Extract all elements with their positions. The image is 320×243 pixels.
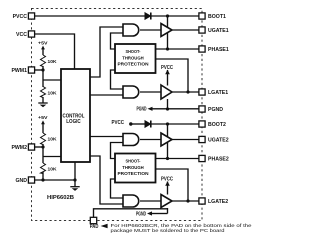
pin LGATE2 <box>199 198 205 204</box>
pin PAD <box>90 217 96 223</box>
svg-text:PWM1: PWM1 <box>11 68 27 74</box>
junction node PGND1 <box>166 107 169 110</box>
svg-text:VCC: VCC <box>16 32 27 38</box>
wire CL out to gate G2B lower input <box>90 156 123 204</box>
ground symbol below R2 <box>38 103 47 107</box>
svg-text:LGATE1: LGATE1 <box>208 90 228 96</box>
wire PVCC2 label to diode D2 <box>131 123 145 125</box>
junction node BOOT1 <box>166 14 169 17</box>
and gate G1B <box>123 86 139 98</box>
junction node PWM2 <box>41 145 44 148</box>
pin GND <box>28 177 34 183</box>
wire BOOT2 riser to buffer B2A top <box>167 124 169 137</box>
wire PHASE1 <box>156 48 199 50</box>
svg-text:UGATE2: UGATE2 <box>208 138 229 144</box>
svg-text:10K: 10K <box>48 137 58 142</box>
svg-text:SHOOT-: SHOOT- <box>126 159 141 164</box>
svg-text:PAD: PAD <box>90 224 99 230</box>
pin PVCC <box>28 13 34 19</box>
svg-text:+5V: +5V <box>38 115 49 120</box>
shoot-through protection box STP1 <box>115 44 156 73</box>
wire STP2 to gate G2A lower input <box>111 143 124 159</box>
svg-text:PHASE1: PHASE1 <box>208 47 229 53</box>
and gate G2B <box>123 195 139 207</box>
svg-text:UGATE1: UGATE1 <box>208 28 229 34</box>
svg-text:10K: 10K <box>48 59 58 64</box>
junction node PHASE1 <box>166 47 169 50</box>
wire PGND2 label <box>152 213 168 215</box>
wire D1 to BOOT1 <box>151 15 199 17</box>
svg-text:PVCC: PVCC <box>112 120 125 126</box>
and gate G1A <box>123 24 139 36</box>
resistor R1 10K <box>41 55 46 67</box>
junction node PWM1 <box>41 68 44 71</box>
pin PWM2 <box>28 144 34 150</box>
svg-text:BOOT1: BOOT1 <box>208 14 226 20</box>
wire PVCC arrow to buffer B2B top <box>167 182 169 195</box>
svg-text:LGATE2: LGATE2 <box>208 199 228 205</box>
control logic box U1 <box>61 69 90 162</box>
wire gate G1A to buffer B1A <box>140 29 161 31</box>
svg-text:SHOOT-: SHOOT- <box>126 49 141 54</box>
wire control logic bottom to ground <box>74 162 76 187</box>
wire VCC to control logic top <box>35 34 75 69</box>
PAD pointer triangle <box>101 224 108 229</box>
wire R2 to ground <box>42 97 44 103</box>
buffer B1B <box>161 85 172 99</box>
wire gate G2A to buffer B2A <box>140 139 161 141</box>
wire PHASE2 <box>156 158 199 160</box>
wire STP2 to gate G2B upper input <box>111 179 124 198</box>
svg-text:PROTECTION: PROTECTION <box>118 62 150 67</box>
wire CL out to gate G1B lower input <box>90 94 123 96</box>
wire PWM2 pin stub <box>35 146 43 148</box>
wire buffer B1A to UGATE1 <box>172 29 199 31</box>
wire PWM2 branch into control logic <box>43 156 61 158</box>
svg-text:BOOT2: BOOT2 <box>208 122 226 128</box>
wire PAD riser <box>94 209 168 218</box>
svg-text:PWM2: PWM2 <box>11 145 27 151</box>
wire R4 to GND wire <box>42 172 44 180</box>
svg-text:PGND: PGND <box>208 107 223 113</box>
svg-text:10K: 10K <box>48 167 58 172</box>
buffer B1A <box>161 24 172 37</box>
pin PHASE1 <box>199 46 205 52</box>
junction node PHASE2 <box>166 157 169 160</box>
wire CL out to gate G2A upper input <box>90 136 123 138</box>
pin BOOT2 <box>199 121 205 127</box>
junction node BOOT2 <box>166 122 169 125</box>
wire buffer B1B to LGATE1 <box>172 91 199 93</box>
pin PWM1 <box>28 67 34 73</box>
svg-text:PVCC: PVCC <box>161 176 173 182</box>
wire +5V2 to R3 <box>42 123 44 133</box>
svg-text:HIP6602B: HIP6602B <box>47 195 74 201</box>
wire gate G1B to buffer B1B <box>140 91 161 93</box>
wire STP1 to gate G1A lower input <box>111 33 124 49</box>
svg-text:PROTECTION: PROTECTION <box>118 171 150 176</box>
resistor R3 10K <box>41 133 46 145</box>
package dashed border <box>32 9 203 221</box>
junction node LGATE1 <box>186 90 189 93</box>
pin PGND <box>199 106 205 112</box>
pin LGATE1 <box>199 89 205 95</box>
svg-text:PVCC: PVCC <box>161 65 173 71</box>
wire PVCC to diode D1 <box>35 15 145 17</box>
buffer B2A <box>161 133 172 146</box>
svg-text:PGND: PGND <box>136 212 146 218</box>
wire PWM1 pin stub <box>35 69 43 71</box>
wire buffer B2A to UGATE2 <box>172 139 199 141</box>
wire R1 to PWM1 node <box>42 66 44 87</box>
pin BOOT1 <box>199 13 205 19</box>
buffer B2B <box>161 195 172 208</box>
wire R3 to PWM2 node <box>42 144 44 163</box>
ground symbol below control logic <box>70 187 79 191</box>
wire PWM1 branch into control logic <box>43 79 61 81</box>
wire buffer B2B to LGATE2 <box>172 200 199 202</box>
diode D1 <box>145 13 151 20</box>
wire PGND1 <box>152 108 199 110</box>
resistor R4 10K <box>41 163 46 174</box>
wire BOOT1 riser to buffer B1A top <box>167 16 169 27</box>
wire buffer B2B bottom to PGND2 <box>167 208 169 214</box>
svg-text:THROUGH: THROUGH <box>122 55 144 60</box>
pin UGATE2 <box>199 136 205 142</box>
junction node LGATE2 <box>186 199 189 202</box>
wire buffer B1B bottom to PGND <box>167 99 169 109</box>
resistor R2 10K <box>41 87 46 98</box>
wire buffer B1A bottom to PHASE1 <box>167 33 169 49</box>
pin PHASE2 <box>199 155 205 161</box>
svg-text:LOGIC: LOGIC <box>66 119 81 125</box>
svg-text:package MUST be soldered to th: package MUST be soldered to the PC board <box>111 228 226 233</box>
svg-text:THROUGH: THROUGH <box>122 165 144 170</box>
diode D2 <box>145 121 151 128</box>
svg-text:PGND: PGND <box>137 106 147 112</box>
and gate G2A <box>123 134 139 146</box>
wire GND pin to ground symbol node <box>35 179 75 181</box>
wire gate G2B to buffer B2B <box>140 200 161 202</box>
wire STP1 to gate G1B upper input <box>111 70 124 89</box>
svg-text:+5V: +5V <box>38 41 49 46</box>
pin UGATE1 <box>199 27 205 33</box>
svg-text:GND: GND <box>15 178 27 184</box>
wire +5V to R1 <box>42 49 44 56</box>
wire buffer B2A bottom to PHASE2 <box>167 143 169 159</box>
svg-text:PHASE2: PHASE2 <box>208 157 229 163</box>
svg-text:10K: 10K <box>48 91 58 96</box>
wire D2 to BOOT2 <box>151 123 199 125</box>
junction node GND riser <box>73 178 76 181</box>
wire STP1 LGATE1 feedback <box>156 59 189 92</box>
wire PVCC arrow to buffer B1B top <box>167 70 169 86</box>
svg-text:PVCC: PVCC <box>13 14 28 20</box>
wire STP2 LGATE2 feedback <box>156 169 188 201</box>
shoot-through protection box STP2 <box>115 154 156 183</box>
junction node R4-GND <box>41 178 44 181</box>
pin VCC <box>28 31 34 37</box>
wire CL out to gate G1A upper input <box>90 27 123 77</box>
